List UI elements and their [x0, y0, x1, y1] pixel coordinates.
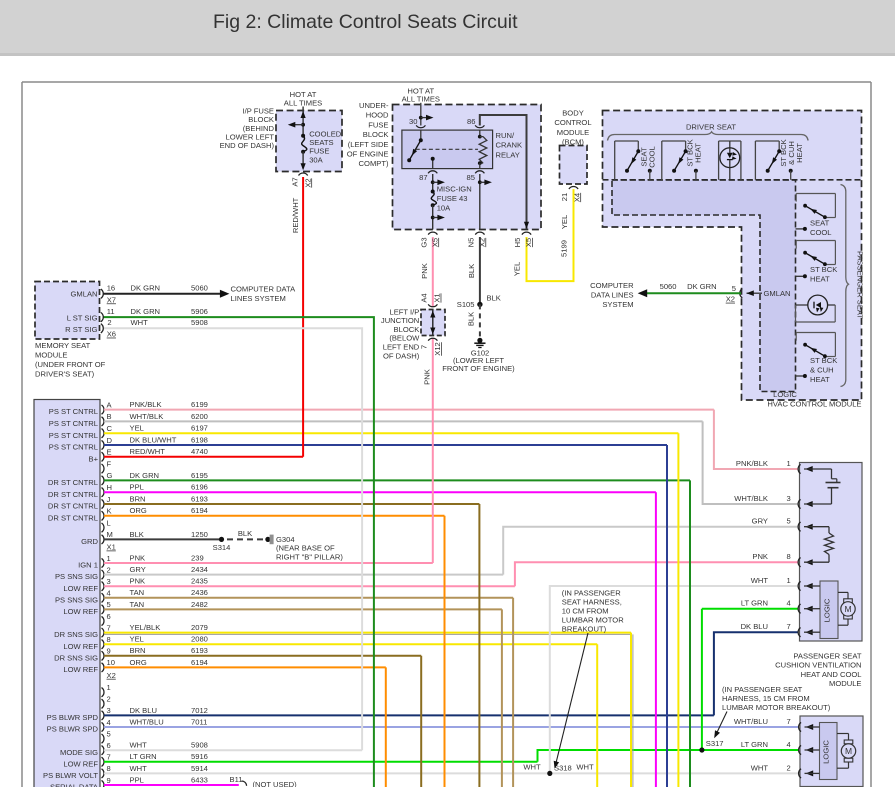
- svg-text:D: D: [107, 436, 113, 445]
- svg-text:WHT: WHT: [130, 741, 148, 750]
- svg-text:WHT: WHT: [131, 318, 149, 327]
- svg-text:X6: X6: [107, 330, 116, 339]
- pin L (no wire): [102, 518, 111, 532]
- ground G102: [442, 338, 515, 373]
- svg-text:LEFT I/P: LEFT I/P: [389, 307, 419, 316]
- svg-text:DR SNS SIG: DR SNS SIG: [54, 653, 98, 662]
- fuse MISC-IGN FUSE 43 10A: [431, 184, 472, 229]
- memory seat module (module box): [35, 282, 100, 340]
- svg-text:86: 86: [467, 117, 475, 126]
- svg-text:X12: X12: [433, 342, 442, 356]
- wire row 10 ORG 6194: [63, 658, 385, 674]
- svg-text:RIGHT "B" PILLAR): RIGHT "B" PILLAR): [276, 552, 343, 561]
- wire row 7 YEL/BLK 2079: [54, 623, 631, 639]
- pin 2 (no wire): [102, 695, 111, 709]
- wire row 3 PNK 2435: [63, 577, 515, 593]
- wire row 4 WHT/BLU 7011: [47, 717, 798, 733]
- svg-text:PASSENGER SEAT: PASSENGER SEAT: [856, 251, 865, 319]
- I/P fuse block (module box): [276, 111, 342, 172]
- svg-text:PS SNS SIG: PS SNS SIG: [55, 595, 98, 604]
- wire BLK fuse N5 down to S105: [467, 237, 480, 304]
- svg-text:PPL: PPL: [130, 775, 144, 784]
- seat back pin 2 WHT: [751, 763, 820, 778]
- junction block labels: [381, 307, 420, 360]
- memory module pin 16 GMLAN: [101, 284, 116, 305]
- svg-text:(IN PASSENGER: (IN PASSENGER: [562, 589, 621, 598]
- svg-text:HOOD: HOOD: [366, 111, 389, 120]
- svg-text:PASSENGER SEAT: PASSENGER SEAT: [793, 652, 861, 661]
- svg-text:6193: 6193: [191, 646, 208, 655]
- wire row 8 YEL 2080: [63, 635, 597, 651]
- svg-text:2434: 2434: [191, 565, 208, 574]
- svg-text:LT GRN: LT GRN: [741, 740, 768, 749]
- svg-text:DATA LINES: DATA LINES: [591, 290, 634, 299]
- svg-text:UNDER-: UNDER-: [359, 101, 389, 110]
- memory module pin 2: [101, 318, 116, 339]
- run/crank relay U1: [402, 130, 522, 169]
- svg-text:7012: 7012: [191, 706, 208, 715]
- label PASSENGER SEAT (rotated): [856, 251, 865, 319]
- svg-text:239: 239: [191, 553, 204, 562]
- svg-text:7: 7: [107, 623, 111, 632]
- svg-text:6: 6: [107, 741, 111, 750]
- svg-text:BLK: BLK: [130, 530, 144, 539]
- svg-text:PNK: PNK: [422, 369, 431, 385]
- svg-text:X4: X4: [572, 193, 581, 202]
- svg-text:TAN: TAN: [130, 588, 145, 597]
- svg-text:3: 3: [107, 706, 111, 715]
- svg-text:5916: 5916: [191, 752, 208, 761]
- wire YEL/BLK 2079 row7 lane down off-page: [631, 633, 633, 790]
- svg-text:SEAT: SEAT: [810, 218, 830, 227]
- svg-text:MEMORY SEAT: MEMORY SEAT: [35, 341, 91, 350]
- svg-text:PNK/BLK: PNK/BLK: [736, 459, 768, 468]
- HVAC logic inner region: [612, 180, 796, 392]
- svg-text:(LEFT SIDE: (LEFT SIDE: [348, 140, 389, 149]
- relay pin 86 and coil: [467, 115, 529, 229]
- BCM exit pin 21/X4: [560, 187, 582, 203]
- wire row 8 WHT 5914: [43, 764, 798, 780]
- svg-text:2435: 2435: [191, 577, 208, 586]
- junction pin 7/X12: [420, 338, 443, 356]
- svg-text:PNK: PNK: [130, 553, 146, 562]
- svg-text:X7: X7: [107, 295, 116, 304]
- cushion module LOGIC box: [820, 581, 838, 639]
- svg-text:PNK: PNK: [752, 552, 768, 561]
- svg-text:DK GRN: DK GRN: [131, 284, 161, 293]
- I/P fuse block labels: [220, 106, 275, 150]
- passenger seat back module box: [800, 716, 863, 787]
- wire PPL 6196 row H lane down off-page: [655, 492, 657, 790]
- left I/P junction block (module box): [421, 310, 445, 336]
- svg-text:9: 9: [107, 647, 111, 656]
- svg-text:LOGIC: LOGIC: [773, 390, 797, 399]
- svg-text:SEAT HARNESS,: SEAT HARNESS,: [562, 598, 622, 607]
- svg-text:PS BLWR VOLT: PS BLWR VOLT: [43, 771, 98, 780]
- svg-text:DK GRN: DK GRN: [687, 282, 717, 291]
- underhood fuse block (module box): [393, 105, 542, 230]
- svg-text:3: 3: [107, 577, 111, 586]
- svg-text:END OF DASH): END OF DASH): [220, 141, 275, 150]
- svg-text:DK GRN: DK GRN: [130, 471, 160, 480]
- svg-text:X2: X2: [477, 238, 486, 247]
- svg-text:LOGIC: LOGIC: [822, 740, 831, 764]
- svg-text:7011: 7011: [191, 717, 207, 726]
- cushion pin 7 DK BLU: [741, 622, 820, 637]
- relay coil L1: [478, 130, 487, 169]
- wire row J BRN 6193: [48, 494, 479, 510]
- switch SW1 SEAT COOL (driver): [615, 141, 657, 180]
- splice S314 and ground G304: [213, 529, 344, 561]
- wire row 6 WHT 5908: [60, 741, 362, 757]
- svg-text:H: H: [107, 483, 112, 492]
- svg-text:(UNDER FRONT OF: (UNDER FRONT OF: [35, 360, 106, 369]
- svg-text:M: M: [107, 530, 113, 539]
- wire row C YEL 6197: [49, 424, 679, 440]
- svg-text:TAN: TAN: [130, 600, 145, 609]
- wire DK GRN 6195 row G lane down off-page: [689, 480, 691, 790]
- cushion pin 1 PNK/BLK: [736, 459, 832, 474]
- splice S105: [457, 294, 501, 309]
- svg-text:2: 2: [107, 565, 111, 574]
- svg-text:LOW REF: LOW REF: [63, 665, 98, 674]
- cushion pin 4 LT GRN: [741, 599, 820, 614]
- exit pin N5/X2: [466, 232, 486, 247]
- svg-text:4: 4: [107, 589, 111, 598]
- svg-text:10: 10: [107, 658, 115, 667]
- wire BRN 6193 row9 lane down off-page: [420, 656, 422, 790]
- wire row A PNK/BLK 6199: [49, 400, 714, 416]
- svg-text:YEL/BLK: YEL/BLK: [130, 623, 161, 632]
- wire row B WHT/BLK 6200: [49, 412, 703, 428]
- svg-text:HEAT: HEAT: [694, 143, 703, 163]
- label X1: [107, 543, 116, 552]
- svg-text:E: E: [107, 448, 112, 457]
- pin F (no wire): [102, 459, 112, 473]
- bottom crop margin: [0, 787, 895, 802]
- BCM labels: [554, 109, 591, 147]
- svg-text:8: 8: [107, 764, 111, 773]
- svg-text:HEAT AND COOL: HEAT AND COOL: [801, 670, 862, 679]
- wire row K ORG 6194: [48, 506, 445, 522]
- svg-text:OF DASH): OF DASH): [383, 351, 420, 360]
- svg-text:GRY: GRY: [752, 517, 768, 526]
- svg-text:PS ST CNTRL: PS ST CNTRL: [49, 443, 98, 452]
- heater element (cushion): [826, 469, 841, 504]
- svg-text:S314: S314: [213, 543, 231, 552]
- svg-text:BREAKOUT): BREAKOUT): [562, 625, 607, 634]
- svg-text:85: 85: [467, 173, 475, 182]
- svg-text:FUSE: FUSE: [368, 120, 388, 129]
- svg-text:B: B: [107, 412, 112, 421]
- svg-text:LOW REF: LOW REF: [63, 759, 98, 768]
- wire row 7 LT GRN 5916: [63, 752, 537, 768]
- svg-text:PS ST CNTRL: PS ST CNTRL: [49, 407, 98, 416]
- svg-text:R ST SIG: R ST SIG: [65, 325, 97, 334]
- svg-text:X2: X2: [107, 671, 116, 680]
- wire row 5 TAN 2482: [63, 600, 502, 616]
- svg-text:RUN/: RUN/: [496, 131, 515, 140]
- svg-text:10 CM FROM: 10 CM FROM: [562, 607, 609, 616]
- blower resistor (cushion): [825, 527, 834, 563]
- svg-text:PS ST CNTRL: PS ST CNTRL: [49, 419, 98, 428]
- svg-text:LOWER LEFT: LOWER LEFT: [225, 133, 274, 142]
- svg-text:6193: 6193: [191, 494, 208, 503]
- svg-text:DR ST CNTRL: DR ST CNTRL: [48, 513, 98, 522]
- passenger seat brace: [841, 185, 849, 387]
- svg-text:16: 16: [107, 284, 115, 293]
- wire PNK fuse G3 to IGN1 row: [420, 237, 433, 563]
- svg-text:OF ENGINE: OF ENGINE: [347, 150, 389, 159]
- wire RED/WHT 4740 vertical from I/P fuse: [291, 177, 303, 457]
- label LOGIC (HVAC): [773, 390, 797, 399]
- wire row 1 PNK 239: [78, 553, 433, 569]
- svg-text:ALL TIMES: ALL TIMES: [284, 98, 322, 107]
- motor M (cushion): [838, 592, 855, 625]
- svg-text:ST BCK: ST BCK: [810, 265, 837, 274]
- svg-text:SEATS: SEATS: [309, 138, 333, 147]
- svg-text:5060: 5060: [191, 284, 208, 293]
- svg-text:M: M: [844, 604, 851, 614]
- wire WHT 5908 from memory seat module down to row 6: [103, 328, 362, 750]
- svg-text:9: 9: [107, 776, 111, 785]
- svg-text:WHT/BLU: WHT/BLU: [130, 717, 164, 726]
- svg-text:7: 7: [787, 717, 791, 726]
- svg-text:(NEAR BASE OF: (NEAR BASE OF: [276, 544, 335, 553]
- svg-text:WHT: WHT: [130, 764, 148, 773]
- switch SW6 ST BCK & CUH HEAT (passenger): [796, 333, 838, 384]
- wire row 2 GRY 2434: [55, 565, 503, 581]
- svg-text:COMPT): COMPT): [359, 159, 389, 168]
- wire DK GRN 5060 to computer data lines (right): [590, 281, 741, 309]
- svg-text:IGN 1: IGN 1: [78, 561, 98, 570]
- svg-text:5908: 5908: [191, 741, 208, 750]
- svg-text:ORG: ORG: [130, 658, 147, 667]
- wire row D DK BLU/WHT 6198: [49, 435, 667, 451]
- svg-text:FUSE 43: FUSE 43: [437, 194, 468, 203]
- wire BRN 6193 row J lane down off-page: [478, 504, 480, 790]
- svg-text:DR ST CNTRL: DR ST CNTRL: [48, 502, 98, 511]
- svg-text:87: 87: [419, 173, 427, 182]
- svg-text:G: G: [107, 471, 113, 480]
- svg-text:CONTROL: CONTROL: [554, 118, 591, 127]
- memory seat module labels: [35, 289, 106, 378]
- seat back pin 4 LT GRN: [741, 740, 820, 755]
- svg-text:Fig 2: Climate Control Seats C: Fig 2: Climate Control Seats Circuit: [213, 11, 518, 33]
- svg-text:BLK: BLK: [238, 529, 252, 538]
- svg-text:WHT/BLK: WHT/BLK: [130, 412, 164, 421]
- svg-text:A4: A4: [420, 293, 429, 302]
- wire row H PPL 6196: [48, 483, 656, 499]
- svg-text:COOL: COOL: [647, 146, 656, 168]
- svg-text:(BEHIND: (BEHIND: [243, 124, 275, 133]
- svg-text:GMLAN: GMLAN: [70, 289, 97, 298]
- svg-text:(BCM): (BCM): [562, 138, 584, 147]
- relay pin 30 and feed wire: [409, 103, 433, 128]
- HVAC pin 5 GMLAN: [726, 284, 791, 304]
- svg-text:B11: B11: [230, 775, 243, 784]
- svg-text:2436: 2436: [191, 588, 208, 597]
- svg-text:6194: 6194: [191, 658, 208, 667]
- svg-text:6196: 6196: [191, 483, 208, 492]
- splice S318: [523, 763, 594, 777]
- svg-text:S317: S317: [706, 739, 724, 748]
- pin 6 (no wire): [102, 612, 111, 626]
- relay pin 87: [419, 171, 445, 192]
- memory module pin 11: [101, 307, 115, 322]
- svg-text:BLK: BLK: [467, 264, 476, 278]
- title bar: [0, 0, 895, 56]
- svg-text:5: 5: [787, 517, 791, 526]
- pin B11 (NOT USED): [230, 775, 298, 789]
- wire DK GRN 5906 from memory seat module down off-page: [103, 317, 374, 790]
- svg-text:X5: X5: [430, 238, 439, 247]
- svg-text:2482: 2482: [191, 600, 208, 609]
- svg-text:6: 6: [107, 612, 111, 621]
- svg-text:LT GRN: LT GRN: [130, 752, 157, 761]
- svg-text:5914: 5914: [191, 764, 208, 773]
- svg-text:X1: X1: [107, 543, 116, 552]
- svg-text:DK BLU: DK BLU: [130, 706, 157, 715]
- svg-text:WHT/BLU: WHT/BLU: [734, 717, 768, 726]
- svg-text:COMPUTER: COMPUTER: [590, 281, 634, 290]
- svg-text:2079: 2079: [191, 623, 208, 632]
- svg-text:K: K: [107, 507, 112, 516]
- svg-text:LEFT END: LEFT END: [383, 343, 420, 352]
- svg-text:(BELOW: (BELOW: [389, 334, 420, 343]
- svg-text:3: 3: [787, 494, 791, 503]
- I/P fuse exit pin A7/X2: [291, 173, 313, 188]
- svg-text:FRONT OF ENGINE): FRONT OF ENGINE): [442, 364, 515, 373]
- svg-text:6198: 6198: [191, 435, 208, 444]
- svg-text:G3: G3: [419, 237, 428, 247]
- svg-text:YEL: YEL: [130, 635, 144, 644]
- svg-text:RED/WHT: RED/WHT: [291, 197, 300, 233]
- svg-text:30A: 30A: [309, 155, 323, 164]
- svg-text:PNK/BLK: PNK/BLK: [130, 400, 162, 409]
- wire ORG 6194 row10 lane down off-page: [385, 667, 387, 790]
- note S317 harness location: [714, 685, 831, 738]
- svg-text:SYSTEM: SYSTEM: [602, 300, 633, 309]
- svg-text:1: 1: [787, 459, 791, 468]
- svg-text:C: C: [107, 424, 113, 433]
- svg-text:BLK: BLK: [467, 312, 476, 326]
- svg-text:6195: 6195: [191, 471, 208, 480]
- svg-text:L ST SIG: L ST SIG: [67, 314, 98, 323]
- cushion pin 5 GRY: [752, 517, 829, 532]
- wire BLK dashed to ground: [467, 304, 480, 340]
- svg-text:(IN PASSENGER SEAT: (IN PASSENGER SEAT: [722, 685, 803, 694]
- svg-text:BODY: BODY: [562, 109, 584, 118]
- svg-text:MODE SIG: MODE SIG: [60, 748, 98, 757]
- svg-text:2080: 2080: [191, 635, 208, 644]
- svg-text:5: 5: [107, 729, 111, 738]
- wire row 9 BRN 6193: [54, 646, 421, 662]
- underhood fuse block labels: [347, 101, 389, 168]
- svg-text:6197: 6197: [191, 424, 208, 433]
- splice S317: [699, 739, 723, 752]
- svg-text:2: 2: [107, 318, 111, 327]
- svg-text:BLK: BLK: [487, 294, 501, 303]
- wire row G DK GRN 6195: [48, 471, 690, 487]
- svg-text:WHT: WHT: [751, 576, 769, 585]
- svg-text:MODULE: MODULE: [829, 679, 862, 688]
- svg-text:4740: 4740: [191, 447, 208, 456]
- svg-text:N5: N5: [466, 238, 475, 248]
- svg-text:21: 21: [560, 193, 569, 201]
- svg-text:HEAT: HEAT: [810, 275, 830, 284]
- svg-text:M: M: [845, 746, 852, 756]
- svg-text:HARNESS, 15 CM FROM: HARNESS, 15 CM FROM: [722, 694, 810, 703]
- motor M (seat back): [837, 734, 856, 769]
- wire TAN 2482 row5 lane down off-page: [501, 609, 503, 790]
- svg-text:LT GRN: LT GRN: [741, 599, 768, 608]
- svg-text:DK GRN: DK GRN: [131, 307, 161, 316]
- svg-text:PS ST CNTRL: PS ST CNTRL: [49, 431, 98, 440]
- cushion pin 3 WHT/BLK: [734, 494, 831, 509]
- svg-text:1250: 1250: [191, 530, 208, 539]
- switch SW5 ST BCK HEAT (passenger): [796, 241, 838, 284]
- wire row E RED/WHT 4740: [89, 447, 304, 463]
- wire TAN 2436 row4 lane down off-page: [512, 598, 514, 790]
- relay switch contacts: [407, 130, 478, 169]
- svg-text:FUSE: FUSE: [309, 147, 329, 156]
- svg-text:4: 4: [787, 740, 791, 749]
- svg-text:COMPUTER DATA: COMPUTER DATA: [231, 285, 297, 294]
- wire YEL fuse H5 jog to BCM: [512, 189, 573, 281]
- svg-text:1: 1: [787, 576, 791, 585]
- svg-text:YEL: YEL: [130, 424, 144, 433]
- wire WHT riser S318 to cushion pin 1: [550, 586, 798, 773]
- svg-text:DR ST CNTRL: DR ST CNTRL: [48, 478, 98, 487]
- wire row 4 TAN 2436: [55, 588, 513, 604]
- svg-text:6199: 6199: [191, 400, 208, 409]
- svg-text:7: 7: [787, 622, 791, 631]
- svg-text:RED/WHT: RED/WHT: [130, 447, 166, 456]
- svg-text:BLOCK: BLOCK: [248, 115, 274, 124]
- svg-text:WHT: WHT: [751, 763, 769, 772]
- svg-text:L: L: [107, 518, 111, 527]
- svg-text:A7: A7: [291, 177, 300, 186]
- svg-text:DR ST CNTRL: DR ST CNTRL: [48, 490, 98, 499]
- svg-text:2: 2: [107, 695, 111, 704]
- passenger seat cushion module box: [800, 463, 863, 642]
- wire LT GRN 5916 jog from row7 to S317 line: [538, 750, 799, 762]
- indicator LED (driver): [719, 141, 741, 180]
- svg-text:6433: 6433: [191, 775, 208, 784]
- svg-text:MISC-IGN: MISC-IGN: [437, 184, 472, 193]
- svg-text:H5: H5: [513, 238, 522, 248]
- switch SW3 ST BCK & CUH HEAT (driver): [755, 139, 804, 179]
- label X2: [107, 671, 116, 680]
- svg-text:WHT: WHT: [576, 763, 594, 772]
- svg-text:X1: X1: [433, 293, 442, 302]
- svg-text:8: 8: [107, 635, 111, 644]
- cushion pin 8 PNK: [752, 552, 829, 567]
- svg-text:YEL: YEL: [512, 262, 521, 276]
- svg-text:6194: 6194: [191, 506, 208, 515]
- svg-text:LOW REF: LOW REF: [63, 642, 98, 651]
- svg-text:5060: 5060: [660, 282, 677, 291]
- svg-text:COOL: COOL: [810, 228, 832, 237]
- junction block pass-through arrows: [430, 310, 435, 335]
- cushion module labels: [775, 652, 862, 689]
- svg-text:MODULE: MODULE: [35, 350, 68, 359]
- svg-text:7: 7: [107, 753, 111, 762]
- svg-text:RELAY: RELAY: [496, 150, 520, 159]
- driver seat pin row (dashed): [603, 179, 862, 181]
- wire DK GRN 5060 to computer data lines (left): [104, 284, 297, 303]
